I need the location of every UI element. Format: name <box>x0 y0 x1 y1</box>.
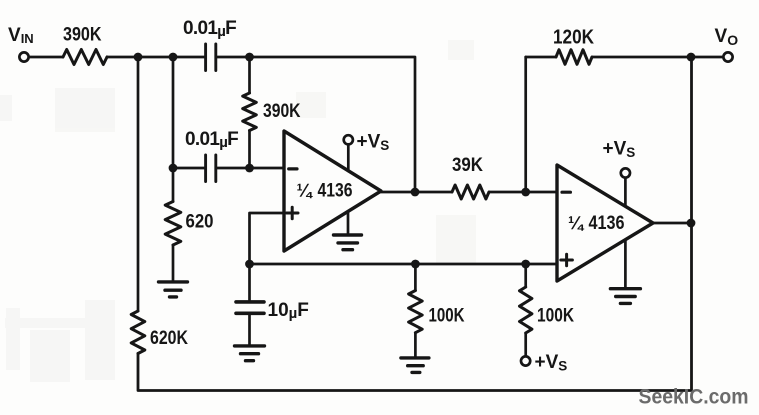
wire: U2 bottom edge to ground stem <box>624 240 627 287</box>
wire: +Vs terminal to U2 top edge <box>624 179 627 207</box>
terminal VIN <box>19 52 28 61</box>
resistor R 100K (left) <box>409 291 423 333</box>
node junction at 249.5,168 <box>245 164 254 173</box>
wire: minus node down to 620 <box>172 168 175 202</box>
ground (below C3) <box>235 346 265 361</box>
terminal +Vs (bottom) <box>521 356 530 365</box>
wire: 100K (left) to ground stem <box>414 333 417 357</box>
wire: U1 output to 39K <box>381 191 452 194</box>
ground (below U2) <box>610 289 640 304</box>
wire: 620K to bottom rail, bottom rail, right rail up to Vo node <box>138 57 692 391</box>
wire: top node down to R 390K vertical <box>248 57 251 93</box>
label minus (U2) <box>562 191 570 194</box>
node junction at 415.4,264 <box>411 260 420 269</box>
wire: +Vs terminal to U1 top edge <box>347 145 350 171</box>
terminal +Vs (U2) <box>621 168 630 177</box>
wire: plus-rail node down to 100K (right) <box>524 264 527 287</box>
svg-text:¼: ¼ <box>297 181 314 201</box>
node junction at 415,192 <box>411 188 420 197</box>
terminal +Vs (U1) <box>344 135 353 144</box>
wire: minus line left part to capacitor C2 <box>173 167 204 170</box>
resistor R 100K (right) <box>520 287 532 333</box>
wire: C3 to ground stem <box>248 315 251 345</box>
ground (below 620) <box>159 282 188 297</box>
wire: 120K to Vo terminal <box>592 56 722 59</box>
node junction at 525.7,192 <box>521 188 530 197</box>
wire: 120K feedback top left segment <box>526 56 556 59</box>
wire: U1 bottom edge to ground stem <box>347 212 350 234</box>
svg-text:390K: 390K <box>63 25 102 46</box>
resistor R 390K (vertical feedback) <box>243 93 257 131</box>
svg-text:620K: 620K <box>150 328 188 349</box>
svg-text:SeekIC.com: SeekIC.com <box>639 386 749 409</box>
svg-text:0.01µF: 0.01µF <box>185 129 238 151</box>
svg-text:390K: 390K <box>263 101 301 122</box>
resistor R 120K <box>556 50 592 65</box>
wire: U1 plus input left and down to plus rail <box>250 213 285 264</box>
node junction at 173,168 <box>169 164 178 173</box>
svg-text:10µF: 10µF <box>268 300 309 322</box>
wire: 100K (right) to +Vs terminal <box>524 333 527 355</box>
svg-text:39K: 39K <box>452 154 483 176</box>
svg-text:¼: ¼ <box>568 213 585 233</box>
resistor R 39K <box>452 185 489 199</box>
wire: left vertical from top node down to R 620K <box>137 57 140 311</box>
node junction at 173,57 <box>169 53 178 62</box>
capacitor C1 0.01uF (top) <box>206 44 216 71</box>
node junction at 249.5,57 <box>245 53 254 62</box>
svg-text:4136: 4136 <box>318 180 353 202</box>
resistor R 620 (vertical) <box>165 202 181 246</box>
op-amp U1 (1/4 4136) <box>284 131 381 251</box>
node junction at 249.5,264 <box>245 260 254 269</box>
wire: 39K to U2 inverting input <box>489 191 557 194</box>
svg-text:100K: 100K <box>429 306 465 327</box>
svg-text:120K: 120K <box>553 27 594 49</box>
wire: R1 to capacitor C1 (top line) <box>107 56 204 59</box>
capacitor C2 0.01uF (lower) <box>206 155 216 182</box>
ground (below U1) <box>334 235 362 250</box>
wire: plus-rail node down to capacitor C3 <box>248 264 251 300</box>
resistor R 620K (vertical) <box>131 311 145 354</box>
svg-text:0.01µF: 0.01µF <box>183 18 236 40</box>
node junction at 138,57 <box>134 53 143 62</box>
label plus (U1) <box>286 207 298 219</box>
resistor R 390K (input, horizontal) <box>63 50 107 65</box>
op-amp U2 (1/4 4136) <box>557 165 653 281</box>
svg-text:4136: 4136 <box>589 212 625 234</box>
svg-text:620: 620 <box>186 212 214 233</box>
wire: plus rail (bottom horizontal) to U2 plus input <box>250 263 558 266</box>
terminal Vo <box>723 52 732 61</box>
label minus (U1) <box>289 167 297 170</box>
wire: U2 output to right rail <box>653 222 691 225</box>
wire: C1 to corner then down to opamp1 output node <box>217 57 415 192</box>
wire: 390K vertical to minus node <box>248 131 251 169</box>
node junction at 691,57 <box>687 53 696 62</box>
wire: plus-rail node down to 100K (left) <box>414 264 417 291</box>
capacitor C3 10uF <box>236 302 264 313</box>
svg-text:100K: 100K <box>537 306 574 327</box>
wire: Vin terminal to R1 <box>30 56 64 59</box>
label plus (U2) <box>561 254 573 266</box>
wire: 620 to ground stem <box>172 245 175 280</box>
node junction at 525.7,264 <box>521 260 530 269</box>
ground (below 100K left) <box>401 358 429 373</box>
wire: vertical from 173,57 down to minus line <box>172 57 175 168</box>
node junction at 691,223 <box>687 219 696 228</box>
wire: 120K left corner down to U2 inverting node <box>524 57 527 192</box>
wire: C2 to opamp1 inverting input <box>217 167 284 170</box>
